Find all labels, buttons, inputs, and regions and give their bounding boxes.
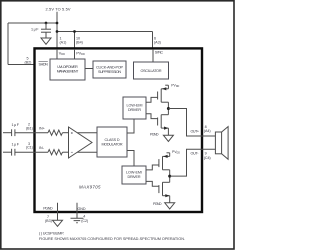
node junction dot supply/railB	[56, 30, 59, 33]
svg-text:(A3): (A3)	[154, 40, 161, 44]
svg-text:PVDD: PVDD	[171, 83, 179, 88]
block LOW-EMI DRIVER 2	[122, 166, 146, 184]
svg-text:9: 9	[205, 152, 207, 156]
wire IN- left	[3, 151, 12, 153]
wire opamp out bottom to modulator	[77, 151, 97, 153]
transistor NMOS2 source lead	[163, 195, 170, 197]
transistor PMOS2 channel bar	[162, 156, 164, 169]
transistor PMOS2 gate bar	[158, 159, 160, 167]
svg-text:CLICK-AND-POP: CLICK-AND-POP	[96, 65, 124, 69]
transistor PMOS1 source lead	[161, 88, 168, 90]
ground symbol PGND stage2	[165, 203, 175, 209]
wire resistor to opamp IN+	[63, 132, 69, 134]
svg-text:1μF: 1μF	[31, 28, 39, 32]
node junction dot PVDD tap	[73, 30, 76, 33]
opamp plus mark	[71, 132, 73, 134]
opamp minus mark	[71, 151, 73, 153]
wire OUT- to border	[170, 149, 216, 176]
stage 1 : wire driver1 to PMOS gate	[146, 97, 158, 102]
transistor PMOS2 drain lead	[163, 169, 170, 171]
wire opamp out top to modulator	[77, 132, 97, 134]
svg-text:4: 4	[83, 215, 85, 219]
capacitor input IN-	[11, 149, 13, 156]
svg-text:1μF: 1μF	[12, 142, 20, 146]
transistor PMOS1 drain lead	[161, 101, 168, 103]
ground symbol bypass cap	[41, 38, 51, 44]
svg-text:PVDD: PVDD	[172, 150, 180, 155]
wire modulator to driver 2	[127, 151, 134, 167]
svg-text:MODULATOR: MODULATOR	[102, 143, 123, 147]
wire SYNC internal	[152, 50, 154, 62]
wire driver1 to NMOS gate	[146, 114, 158, 119]
capacitor input IN+	[11, 129, 13, 136]
svg-text:PGND: PGND	[43, 206, 53, 210]
wire IN- to resistor	[15, 151, 48, 153]
svg-text:SHDN: SHDN	[39, 63, 49, 67]
svg-text:OSCILLATOR: OSCILLATOR	[141, 69, 162, 73]
border frame	[1, 1, 234, 249]
transistor NMOS1 channel bar	[160, 115, 162, 128]
svg-text:(C4): (C4)	[204, 156, 211, 160]
svg-text:PVDD: PVDD	[76, 52, 85, 57]
svg-text:(B2): (B2)	[25, 60, 32, 64]
wire PVDD internal	[74, 50, 76, 59]
transistor NMOS1 drain lead	[161, 114, 168, 116]
transistor NMOS2 channel bar	[162, 182, 164, 195]
block CLASS D MODULATOR	[97, 127, 127, 157]
svg-text:VDD: VDD	[59, 52, 65, 57]
wire driver2 to NMOS gate	[146, 181, 159, 186]
block LOW-EMI DRIVER 1	[123, 97, 146, 119]
wire left drop to SHDN	[7, 23, 9, 65]
svg-text:PGND: PGND	[153, 202, 162, 206]
power stub PVDD stage1	[165, 84, 168, 86]
wire NMOS1 to PGND	[167, 128, 169, 135]
wire supply vertical to VDD pin 1	[56, 12, 58, 49]
svg-text:SUPPRESSION: SUPPRESSION	[98, 70, 121, 74]
svg-text:IN+: IN+	[39, 127, 45, 131]
transistor PMOS2 source lead	[163, 155, 170, 157]
wire rail A	[8, 22, 57, 24]
wire PGND pin7	[57, 203, 59, 221]
resistor IN-	[48, 150, 63, 155]
svg-text:2.5V TO 5.5V: 2.5V TO 5.5V	[46, 6, 71, 11]
wire SHDN horizontal	[8, 64, 35, 66]
svg-text:OUT-: OUT-	[191, 152, 200, 156]
speaker body	[215, 132, 221, 154]
speaker cone	[222, 127, 229, 160]
svg-text:MAX9705: MAX9705	[79, 185, 101, 190]
wire PVDD pin 10 drop	[74, 32, 76, 49]
block OSCILLATOR	[134, 62, 169, 79]
wire PVDD riser stage1	[167, 85, 169, 89]
svg-text:LOW-EMI: LOW-EMI	[127, 104, 143, 108]
capacitor C1 1uF bypass	[41, 23, 51, 38]
wire rail B	[57, 31, 153, 33]
wire resistor to opamp IN-	[63, 151, 69, 153]
wire VDD internal	[56, 50, 58, 59]
svg-text:MANAGEMENT: MANAGEMENT	[57, 69, 79, 73]
transistor NMOS2 arrow	[165, 194, 169, 197]
node junction dot cap C1 tap	[45, 22, 48, 25]
svg-text:FIGURE SHOWS MAX9705 CONFIGURE: FIGURE SHOWS MAX9705 CONFIGURED FOR SPRE…	[39, 237, 185, 241]
wire OUT+ to border	[168, 109, 215, 137]
wire IN+ to resistor	[15, 132, 48, 134]
ground symbol PGND pin7	[53, 220, 63, 226]
svg-text:SYNC: SYNC	[155, 50, 164, 54]
node OUT+ junction dot	[167, 107, 170, 110]
wire drain chain stage2	[169, 170, 171, 183]
svg-text:(B4): (B4)	[76, 40, 83, 44]
svg-text:(C2): (C2)	[81, 219, 88, 223]
svg-text:1μF: 1μF	[12, 123, 20, 127]
wire PVDD riser stage2	[169, 153, 171, 157]
IC MAX9705 outline	[35, 48, 203, 212]
svg-text:DRIVER: DRIVER	[128, 108, 141, 112]
transistor PMOS1 arrow	[162, 87, 166, 90]
stage 2 : wire driver2 to PMOS gate	[146, 165, 159, 170]
transistor NMOS2 drain lead	[163, 181, 170, 183]
svg-text:LOW-EMI: LOW-EMI	[126, 171, 142, 175]
ground symbol PGND stage1	[163, 135, 173, 141]
wire IN+ left	[3, 132, 12, 134]
svg-text:(C1): (C1)	[26, 146, 33, 150]
node junction dot supply/railA	[56, 22, 59, 25]
wire SYNC drop	[152, 32, 154, 49]
resistor IN+	[48, 130, 63, 135]
block CLICK-AND-POP SUPPRESSION	[93, 61, 126, 78]
op-amp input amplifier	[69, 127, 93, 158]
svg-text:(B3): (B3)	[45, 219, 52, 223]
svg-text:IN-: IN-	[39, 146, 45, 150]
svg-text:(A1): (A1)	[60, 40, 67, 44]
transistor NMOS1 source lead	[161, 127, 168, 129]
svg-text:OUT+: OUT+	[191, 130, 200, 134]
transistor PMOS1 gate bar	[157, 92, 159, 100]
svg-text:UVLO/POWER: UVLO/POWER	[57, 65, 78, 69]
transistor PMOS1 channel bar	[160, 89, 162, 102]
ground symbol earth GND pin4	[71, 218, 84, 223]
transistor NMOS1 arrow	[164, 127, 168, 130]
svg-text:(A4): (A4)	[204, 129, 211, 133]
svg-text:GND: GND	[78, 207, 86, 211]
wire modulator to driver 1	[127, 119, 134, 133]
block UVLO/POWER MANAGEMENT	[50, 59, 85, 80]
wire UVLO to click-and-pop	[85, 68, 93, 70]
wire NMOS2 to PGND	[169, 196, 171, 203]
node OUT- junction dot	[168, 175, 171, 178]
svg-text:(B1): (B1)	[26, 126, 33, 130]
wire GND pin4	[76, 203, 78, 219]
transistor NMOS1 gate bar	[157, 118, 159, 126]
power stub PVDD stage2	[167, 152, 170, 154]
wire drain chain stage1	[167, 102, 169, 115]
svg-text:DRIVER: DRIVER	[128, 175, 141, 179]
transistor NMOS2 gate bar	[158, 185, 160, 193]
svg-text:CLASS D: CLASS D	[105, 138, 120, 142]
svg-text:( ) UCSP BUMP.: ( ) UCSP BUMP.	[39, 231, 64, 235]
transistor PMOS2 arrow	[163, 155, 167, 158]
svg-text:PGND: PGND	[150, 132, 159, 136]
